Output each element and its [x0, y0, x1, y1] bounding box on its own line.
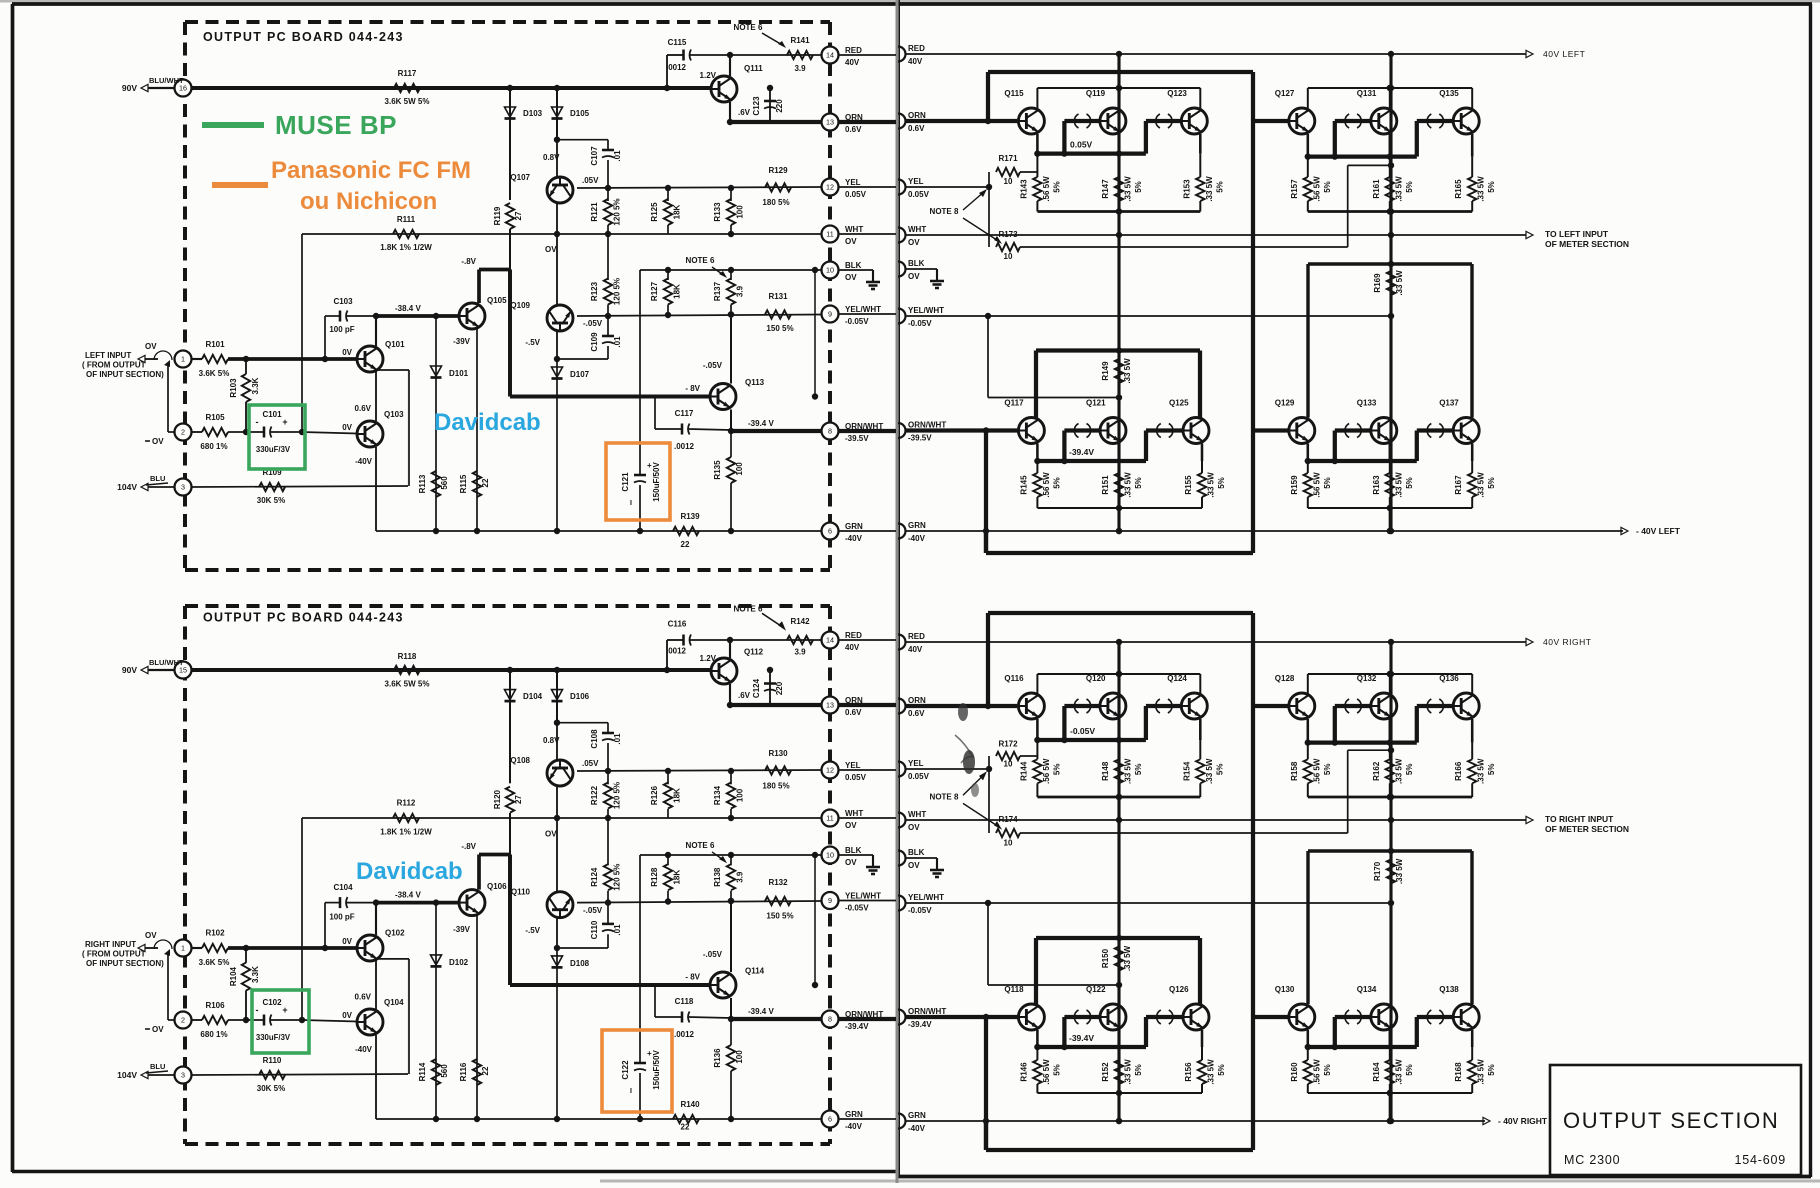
svg-text:5%: 5%	[1405, 181, 1414, 193]
svg-text:100: 100	[735, 462, 744, 476]
svg-text:R115: R115	[459, 474, 468, 493]
svg-text:NOTE 6: NOTE 6	[686, 256, 715, 265]
svg-text:.33 5W: .33 5W	[1477, 1059, 1486, 1085]
svg-text:C110: C110	[590, 920, 599, 939]
svg-text:R106: R106	[205, 1001, 225, 1010]
svg-text:30K 5%: 30K 5%	[257, 1084, 285, 1093]
svg-text:OV: OV	[545, 245, 557, 254]
svg-text:Q102: Q102	[385, 928, 405, 937]
svg-text:Q133: Q133	[1357, 399, 1377, 408]
svg-text:- 8V: - 8V	[685, 973, 700, 982]
svg-text:.0012: .0012	[674, 442, 695, 451]
svg-text:3.6K 5%: 3.6K 5%	[199, 369, 230, 378]
svg-text:2: 2	[181, 1016, 185, 1025]
svg-text:-39.4 V: -39.4 V	[748, 1007, 774, 1016]
svg-text:22: 22	[481, 1066, 490, 1075]
svg-text:C115: C115	[668, 38, 687, 47]
svg-text:Panasonic FC FM: Panasonic FC FM	[271, 157, 471, 184]
svg-text:680 1%: 680 1%	[200, 1030, 227, 1039]
svg-text:Q131: Q131	[1357, 89, 1377, 98]
svg-text:ORN/WHT: ORN/WHT	[845, 422, 883, 431]
svg-text:5%: 5%	[1052, 181, 1061, 193]
svg-text:40V: 40V	[845, 58, 860, 67]
svg-text:- 40V RIGHT: - 40V RIGHT	[1498, 1116, 1548, 1126]
svg-text:R162: R162	[1372, 761, 1381, 781]
svg-text:.33 5W: .33 5W	[1207, 472, 1216, 498]
svg-text:-40V: -40V	[845, 534, 863, 543]
svg-text:WHT: WHT	[908, 225, 926, 234]
svg-text:3.3K: 3.3K	[251, 377, 260, 394]
svg-text:.33 5W: .33 5W	[1395, 270, 1404, 296]
svg-text:5%: 5%	[1052, 1064, 1061, 1076]
svg-text:120 5%: 120 5%	[613, 782, 622, 809]
svg-text:5%: 5%	[1405, 477, 1414, 489]
svg-text:.33 5W: .33 5W	[1395, 858, 1404, 884]
svg-text:D102: D102	[449, 958, 469, 967]
svg-text:-0.05V: -0.05V	[908, 319, 932, 328]
svg-text:.56 5W: .56 5W	[1042, 176, 1051, 202]
svg-text:3.9: 3.9	[794, 64, 806, 73]
svg-text:18K: 18K	[673, 284, 682, 299]
svg-text:6: 6	[828, 1115, 832, 1124]
svg-text:R134: R134	[713, 785, 722, 805]
svg-text:R155: R155	[1184, 475, 1193, 495]
svg-text:0.6V: 0.6V	[845, 708, 862, 717]
svg-text:YEL: YEL	[908, 177, 924, 186]
svg-text:.56 5W: .56 5W	[1042, 472, 1051, 498]
svg-text:5%: 5%	[1487, 477, 1496, 489]
svg-text:104V: 104V	[117, 1070, 137, 1080]
svg-text:C102: C102	[262, 998, 282, 1007]
svg-text:-.8V: -.8V	[461, 257, 476, 266]
svg-text:YEL/WHT: YEL/WHT	[845, 892, 881, 901]
svg-text:RED: RED	[908, 44, 925, 53]
svg-text:-40V: -40V	[845, 1122, 863, 1131]
svg-text:5%: 5%	[1134, 477, 1143, 489]
svg-text:ou Nichicon: ou Nichicon	[300, 188, 437, 215]
svg-text:22: 22	[681, 540, 690, 549]
svg-text:OF INPUT SECTION): OF INPUT SECTION)	[86, 370, 164, 379]
svg-text:330uF/3V: 330uF/3V	[256, 1033, 291, 1042]
svg-text:R159: R159	[1290, 475, 1299, 495]
svg-text:BLU: BLU	[150, 474, 165, 483]
svg-text:D105: D105	[570, 109, 590, 118]
svg-text:10: 10	[1004, 177, 1013, 186]
svg-text:30K 5%: 30K 5%	[257, 496, 285, 505]
svg-text:0V: 0V	[342, 1011, 352, 1020]
svg-text:R126: R126	[650, 785, 659, 805]
svg-text:1.8K 1% 1/2W: 1.8K 1% 1/2W	[380, 243, 432, 252]
svg-text:R111: R111	[397, 215, 416, 224]
svg-text:OV: OV	[845, 858, 857, 867]
svg-text:Q120: Q120	[1086, 674, 1106, 683]
svg-text:2: 2	[181, 428, 185, 437]
svg-text:OV: OV	[145, 342, 157, 351]
svg-text:R157: R157	[1290, 179, 1299, 199]
svg-text:TO LEFT INPUT: TO LEFT INPUT	[1545, 229, 1609, 239]
svg-text:-40V: -40V	[355, 1045, 373, 1054]
svg-text:.05V: .05V	[582, 176, 599, 185]
svg-text:C109: C109	[590, 332, 599, 352]
svg-text:.6V: .6V	[738, 108, 751, 117]
svg-text:5%: 5%	[1323, 1064, 1332, 1076]
svg-text:Q129: Q129	[1275, 399, 1295, 408]
svg-text:R140: R140	[680, 1100, 700, 1109]
svg-text:( FROM OUTPUT: ( FROM OUTPUT	[82, 361, 146, 370]
svg-text:MC 2300: MC 2300	[1564, 1153, 1620, 1167]
svg-text:Q104: Q104	[384, 998, 404, 1007]
svg-text:5%: 5%	[1323, 764, 1332, 776]
svg-text:Q117: Q117	[1004, 399, 1024, 408]
svg-text:.33 5W: .33 5W	[1207, 1059, 1216, 1085]
svg-text:R129: R129	[768, 166, 788, 175]
svg-text:R152: R152	[1101, 1062, 1110, 1082]
svg-text:Q114: Q114	[745, 967, 765, 976]
svg-text:R101: R101	[205, 340, 225, 349]
svg-text:150 5%: 150 5%	[766, 324, 793, 333]
svg-text:9: 9	[828, 896, 832, 905]
svg-text:.01: .01	[613, 336, 622, 348]
svg-text:ORN: ORN	[845, 113, 863, 122]
svg-text:R104: R104	[229, 966, 238, 986]
svg-text:10: 10	[1004, 839, 1013, 848]
svg-text:13: 13	[826, 118, 834, 127]
svg-text:3.6K 5%: 3.6K 5%	[199, 958, 230, 967]
svg-text:5%: 5%	[1405, 1064, 1414, 1076]
svg-text:100: 100	[735, 1050, 744, 1064]
svg-text:-38.4 V: -38.4 V	[395, 304, 421, 313]
svg-text:R142: R142	[790, 617, 810, 626]
svg-text:40V: 40V	[845, 643, 860, 652]
svg-text:90V: 90V	[122, 83, 137, 93]
svg-text:.33 5W: .33 5W	[1477, 472, 1486, 498]
svg-text:-39.4V: -39.4V	[908, 1020, 932, 1029]
svg-text:Q127: Q127	[1275, 89, 1295, 98]
svg-text:.33 5W: .33 5W	[1394, 176, 1403, 202]
svg-text:R165: R165	[1454, 179, 1463, 199]
svg-text:R170: R170	[1373, 861, 1382, 881]
svg-text:11: 11	[826, 230, 833, 239]
svg-text:-0.05V: -0.05V	[845, 904, 869, 913]
svg-text:+: +	[282, 417, 287, 427]
svg-text:.6V: .6V	[738, 691, 751, 700]
svg-text:22: 22	[681, 1122, 690, 1131]
svg-text:Q110: Q110	[511, 887, 531, 896]
svg-text:5%: 5%	[1323, 181, 1332, 193]
svg-text:18K: 18K	[673, 204, 682, 219]
svg-text:C116: C116	[668, 620, 687, 629]
svg-text:1.2V: 1.2V	[700, 654, 717, 663]
svg-text:16: 16	[179, 84, 187, 93]
svg-text:C101: C101	[262, 410, 282, 419]
svg-text:Q111: Q111	[744, 64, 763, 73]
svg-text:Q125: Q125	[1169, 399, 1189, 408]
svg-text:-.05V: -.05V	[703, 950, 723, 959]
svg-text:Q113: Q113	[745, 378, 765, 387]
svg-text:Q136: Q136	[1439, 674, 1459, 683]
svg-text:-39.4V: -39.4V	[1069, 1033, 1094, 1043]
svg-text:0.05V: 0.05V	[908, 772, 930, 781]
svg-text:-.05V: -.05V	[583, 319, 603, 328]
svg-text:.33 5W: .33 5W	[1394, 1059, 1403, 1085]
svg-text:Q128: Q128	[1275, 674, 1295, 683]
svg-text:R132: R132	[768, 878, 788, 887]
svg-text:.05V: .05V	[582, 759, 599, 768]
svg-text:C103: C103	[333, 297, 353, 306]
svg-text:R131: R131	[768, 292, 788, 301]
svg-text:.56 5W: .56 5W	[1312, 1059, 1321, 1085]
svg-text:-39.4 V: -39.4 V	[748, 419, 774, 428]
svg-text:3.9: 3.9	[736, 871, 745, 883]
svg-text:5%: 5%	[1323, 477, 1332, 489]
svg-text:R166: R166	[1454, 761, 1463, 781]
svg-text:220: 220	[775, 99, 784, 113]
svg-text:1: 1	[181, 944, 185, 953]
svg-text:-.5V: -.5V	[525, 926, 540, 935]
svg-text:R118: R118	[398, 652, 417, 661]
svg-text:3.6K 5W 5%: 3.6K 5W 5%	[385, 97, 430, 106]
svg-text:.33 5W: .33 5W	[1394, 472, 1403, 498]
svg-text:8: 8	[828, 1015, 832, 1024]
svg-text:OF METER SECTION: OF METER SECTION	[1545, 824, 1629, 834]
svg-text:.33 5W: .33 5W	[1205, 176, 1214, 202]
svg-text:-39.5V: -39.5V	[908, 434, 932, 443]
svg-text:-40V: -40V	[908, 1124, 926, 1133]
svg-text:560: 560	[440, 476, 449, 490]
svg-text:5%: 5%	[1215, 181, 1224, 193]
svg-text:R122: R122	[590, 785, 599, 805]
svg-text:R156: R156	[1184, 1062, 1193, 1082]
svg-text:100: 100	[736, 788, 745, 802]
svg-text:0V: 0V	[342, 348, 352, 357]
svg-text:R167: R167	[1454, 475, 1463, 495]
svg-text:R130: R130	[768, 749, 788, 758]
svg-text:OUTPUT PC BOARD 044-243: OUTPUT PC BOARD 044-243	[203, 610, 404, 624]
svg-text:Q103: Q103	[384, 410, 404, 419]
svg-text:I: I	[630, 500, 632, 507]
svg-text:R103: R103	[229, 378, 238, 398]
svg-text:WHT: WHT	[845, 225, 863, 234]
svg-text:C121: C121	[621, 472, 630, 492]
svg-text:GRN: GRN	[908, 1111, 926, 1120]
svg-text:BLU/WHT: BLU/WHT	[149, 658, 184, 667]
svg-text:3: 3	[181, 1071, 185, 1080]
svg-text:C108: C108	[590, 729, 599, 749]
svg-text:R120: R120	[493, 789, 502, 809]
svg-text:C123: C123	[752, 96, 761, 116]
svg-text:14: 14	[826, 636, 834, 645]
svg-text:.01: .01	[613, 924, 622, 936]
svg-text:-39V: -39V	[453, 925, 471, 934]
svg-text:ORN/WHT: ORN/WHT	[845, 1010, 883, 1019]
svg-text:R164: R164	[1372, 1062, 1381, 1082]
svg-text:Q137: Q137	[1439, 399, 1459, 408]
svg-text:Q115: Q115	[1004, 89, 1024, 98]
svg-text:-0.05V: -0.05V	[845, 317, 869, 326]
svg-text:12: 12	[826, 766, 834, 775]
svg-text:5%: 5%	[1217, 1064, 1226, 1076]
svg-text:R149: R149	[1101, 361, 1110, 381]
svg-text:D103: D103	[523, 109, 543, 118]
svg-text:LEFT INPUT: LEFT INPUT	[85, 351, 131, 360]
svg-text:BLK: BLK	[845, 846, 862, 855]
svg-text:0.6V: 0.6V	[908, 124, 925, 133]
svg-text:Q101: Q101	[385, 340, 405, 349]
svg-text:D108: D108	[570, 959, 590, 968]
svg-text:R158: R158	[1290, 761, 1299, 781]
svg-text:-39.4V: -39.4V	[1069, 447, 1094, 457]
svg-text:15: 15	[179, 666, 187, 675]
svg-text:6: 6	[828, 527, 832, 536]
svg-text:-: -	[256, 417, 259, 427]
svg-text:Q121: Q121	[1086, 399, 1106, 408]
svg-text:.0012: .0012	[666, 63, 687, 72]
svg-text:154-609: 154-609	[1735, 1153, 1786, 1167]
svg-text:0.6V: 0.6V	[908, 709, 925, 718]
svg-text:D101: D101	[449, 369, 469, 378]
svg-text:R172: R172	[998, 739, 1018, 748]
svg-text:150uF/50V: 150uF/50V	[652, 462, 661, 502]
svg-text:R173: R173	[998, 230, 1018, 239]
svg-text:-0.05V: -0.05V	[1070, 726, 1095, 736]
svg-text:40V LEFT: 40V LEFT	[1543, 49, 1585, 59]
svg-text:.33 5W: .33 5W	[1123, 758, 1132, 784]
svg-text:.0012: .0012	[666, 647, 687, 656]
svg-text:5%: 5%	[1487, 764, 1496, 776]
svg-text:R144: R144	[1019, 761, 1028, 781]
svg-text:0V: 0V	[342, 423, 352, 432]
svg-text:-.8V: -.8V	[461, 842, 476, 851]
svg-text:R127: R127	[650, 281, 659, 301]
svg-text:100: 100	[736, 205, 745, 219]
svg-text:R139: R139	[680, 512, 700, 521]
svg-text:R105: R105	[205, 413, 225, 422]
svg-text:18K: 18K	[673, 870, 682, 885]
svg-text:.33 5W: .33 5W	[1124, 1059, 1133, 1085]
svg-text:Q116: Q116	[1004, 674, 1024, 683]
svg-text:GRN: GRN	[845, 522, 863, 531]
svg-text:0.6V: 0.6V	[355, 992, 372, 1001]
svg-text:18K: 18K	[673, 788, 682, 803]
svg-text:OV: OV	[908, 823, 920, 832]
svg-text:BLK: BLK	[908, 259, 925, 268]
svg-text:-0.05V: -0.05V	[908, 906, 932, 915]
svg-text:-38.4 V: -38.4 V	[395, 890, 421, 899]
svg-text:180 5%: 180 5%	[762, 198, 789, 207]
svg-text:8: 8	[828, 427, 832, 436]
svg-text:C118: C118	[675, 997, 694, 1006]
svg-text:R147: R147	[1101, 179, 1110, 199]
svg-text:.01: .01	[613, 150, 622, 162]
svg-text:YEL: YEL	[908, 759, 924, 768]
svg-text:YEL/WHT: YEL/WHT	[908, 306, 944, 315]
svg-text:OF INPUT SECTION): OF INPUT SECTION)	[86, 959, 164, 968]
svg-text:180 5%: 180 5%	[762, 781, 789, 790]
svg-text:R116: R116	[459, 1062, 468, 1081]
svg-text:10: 10	[826, 851, 834, 860]
svg-text:.33 5W: .33 5W	[1394, 758, 1403, 784]
svg-text:Q132: Q132	[1357, 674, 1377, 683]
svg-text:Q134: Q134	[1357, 985, 1377, 994]
svg-text:12: 12	[826, 183, 834, 192]
svg-text:D106: D106	[570, 692, 590, 701]
svg-text:0.05V: 0.05V	[1070, 140, 1093, 150]
svg-text:.33 5W: .33 5W	[1477, 758, 1486, 784]
svg-text:OUTPUT PC BOARD 044-243: OUTPUT PC BOARD 044-243	[203, 30, 404, 44]
svg-text:I: I	[630, 1088, 632, 1095]
svg-text:.56 5W: .56 5W	[1312, 176, 1321, 202]
svg-text:YEL/WHT: YEL/WHT	[845, 305, 881, 314]
svg-text:-: -	[256, 1005, 259, 1015]
svg-text:120 5%: 120 5%	[613, 198, 622, 225]
svg-text:R151: R151	[1101, 475, 1110, 495]
svg-text:0.6V: 0.6V	[355, 404, 372, 413]
svg-text:+: +	[647, 461, 652, 470]
svg-text:5%: 5%	[1134, 764, 1143, 776]
svg-text:10: 10	[1004, 252, 1013, 261]
svg-text:22: 22	[481, 478, 490, 487]
svg-text:3.6K 5W 5%: 3.6K 5W 5%	[385, 680, 430, 689]
svg-text:R171: R171	[998, 154, 1018, 163]
svg-text:680 1%: 680 1%	[200, 442, 227, 451]
svg-text:- 8V: - 8V	[685, 384, 700, 393]
svg-text:OV: OV	[145, 931, 157, 940]
svg-text:5%: 5%	[1134, 181, 1143, 193]
svg-text:27: 27	[514, 795, 523, 804]
svg-text:C122: C122	[621, 1060, 630, 1080]
svg-text:3.3K: 3.3K	[251, 966, 260, 983]
svg-text:RED: RED	[845, 46, 862, 55]
svg-text:.01: .01	[613, 733, 622, 745]
svg-text:R112: R112	[397, 799, 416, 808]
svg-text:27: 27	[514, 211, 523, 220]
svg-text:GRN: GRN	[845, 1110, 863, 1119]
svg-text:5%: 5%	[1405, 764, 1414, 776]
svg-text:13: 13	[826, 701, 834, 710]
svg-text:330uF/3V: 330uF/3V	[256, 445, 291, 454]
svg-text:Q109: Q109	[510, 301, 530, 310]
svg-text:YEL: YEL	[845, 761, 861, 770]
svg-text:OV: OV	[545, 830, 557, 839]
svg-text:Q122: Q122	[1086, 985, 1106, 994]
svg-text:.56 5W: .56 5W	[1042, 1059, 1051, 1085]
svg-text:0.05V: 0.05V	[845, 773, 867, 782]
svg-text:WHT: WHT	[845, 809, 863, 818]
svg-text:Q105: Q105	[487, 296, 507, 305]
svg-text:3.9: 3.9	[794, 648, 806, 657]
svg-text:5%: 5%	[1487, 1064, 1496, 1076]
svg-text:0.05V: 0.05V	[908, 190, 930, 199]
svg-text:.56 5W: .56 5W	[1312, 472, 1321, 498]
svg-text:TO RIGHT INPUT: TO RIGHT INPUT	[1545, 814, 1614, 824]
svg-text:ORN: ORN	[908, 696, 926, 705]
svg-text:Davidcab: Davidcab	[356, 858, 463, 885]
svg-text:( FROM OUTPUT: ( FROM OUTPUT	[82, 950, 146, 959]
svg-text:OV: OV	[845, 273, 857, 282]
svg-text:-40V: -40V	[355, 457, 373, 466]
svg-text:14: 14	[826, 51, 834, 60]
svg-text:BLK: BLK	[908, 848, 925, 857]
svg-text:104V: 104V	[117, 482, 137, 492]
svg-text:Q124: Q124	[1167, 674, 1187, 683]
svg-text:R114: R114	[418, 1062, 427, 1081]
svg-text:OV: OV	[908, 238, 920, 247]
svg-text:OV: OV	[845, 821, 857, 830]
svg-text:3: 3	[181, 483, 185, 492]
svg-text:-40V: -40V	[908, 534, 926, 543]
svg-text:Q118: Q118	[1004, 985, 1024, 994]
svg-text:ORN/WHT: ORN/WHT	[908, 1007, 946, 1016]
